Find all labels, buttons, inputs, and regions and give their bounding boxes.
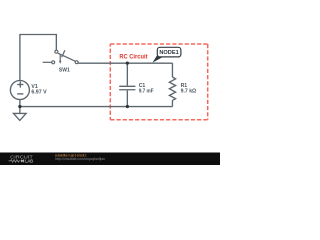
logo diode (21, 159, 23, 162)
wire V1 bottom to ground (19, 99, 21, 113)
logo resistor zigzag (9, 160, 21, 163)
svg-text:6.97 V: 6.97 V (31, 90, 47, 96)
svg-text:9.7 mF: 9.7 mF (139, 88, 154, 94)
node junction at V1 bottom (18, 105, 21, 108)
capacitor C1 (119, 63, 135, 106)
RC Circuit dashed box (110, 44, 207, 120)
svg-text:SW1: SW1 (59, 67, 70, 73)
svg-text:RC Circuit: RC Circuit (119, 54, 148, 61)
wire SW1 right terminal to corner (78, 62, 172, 64)
svg-text:NODE1: NODE1 (159, 50, 179, 56)
switch SW1 (43, 50, 79, 64)
wire top loop V1 to SW1 (20, 35, 56, 82)
footer black bar (0, 153, 220, 166)
node NODE1 flag pointer (153, 54, 163, 63)
svg-text:9.7 kΩ: 9.7 kΩ (181, 89, 197, 95)
svg-text:LAB: LAB (25, 159, 33, 164)
wire R1 bottom to rail (171, 100, 173, 106)
node junction bottom of C1 (126, 105, 129, 108)
wire corner down to R1 top (171, 63, 173, 77)
wire bottom rail (20, 106, 173, 108)
ground (14, 113, 27, 120)
node NODE1 label box (157, 47, 181, 57)
resistor R1 (169, 77, 175, 100)
node junction top of C1 (126, 62, 129, 65)
voltage source V1 (10, 81, 29, 100)
svg-text:http://circuitlab.com/csquq/la: http://circuitlab.com/csquq/laofijau (55, 157, 105, 161)
